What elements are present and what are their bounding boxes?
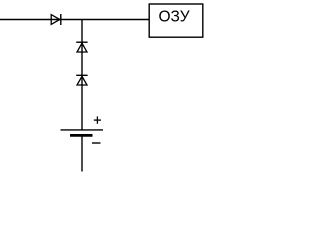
svg-text:ОЗУ: ОЗУ [158,8,189,25]
